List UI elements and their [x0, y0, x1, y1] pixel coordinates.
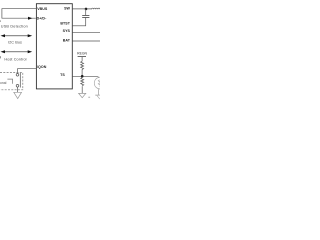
svg-text:D+/D-: D+/D-	[37, 17, 47, 21]
svg-text:VBUS: VBUS	[37, 7, 48, 11]
pushbutton S1 actuator bar	[17, 73, 24, 88]
wire TS line into thermistor	[98, 76, 99, 77]
wire TS	[72, 73, 98, 80]
svg-text:/QON: /QON	[37, 65, 47, 69]
wire VBUS	[2, 5, 37, 12]
svg-text:BTST: BTST	[60, 22, 70, 26]
pushbutton S1 contact top	[16, 74, 19, 77]
pushbutton S1 contact bottom	[16, 85, 19, 88]
wire cap to BTST	[82, 18, 89, 26]
svg-text:I2C Bus: I2C Bus	[8, 41, 22, 45]
REGN rail bar	[78, 53, 86, 61]
arrowhead into D+/D- pin	[28, 17, 33, 20]
thermistor RT1 element	[98, 80, 100, 87]
svg-text:USB Detection: USB Detection	[1, 25, 28, 29]
wire D+/D-	[2, 15, 36, 22]
wire BAT	[72, 38, 100, 45]
wire /QON from pushbutton	[18, 69, 37, 74]
capacitor C1 bootstrap	[82, 12, 89, 20]
wire R2 to ground	[79, 86, 86, 93]
wire button to ground	[14, 87, 21, 92]
svg-text:Host Control: Host Control	[4, 58, 26, 62]
svg-text:TS: TS	[60, 73, 65, 77]
svg-text:REGN: REGN	[77, 52, 87, 56]
cut-off mark left edge	[0, 20, 2, 21]
node SW junction	[85, 8, 88, 11]
svg-text:ional: ional	[0, 81, 7, 85]
ground under pushbutton	[14, 92, 22, 98]
wire R1 to TS node	[79, 69, 86, 76]
ground under R2	[79, 93, 86, 97]
wire BTST	[72, 22, 86, 29]
resistor R2 TS pull-down	[81, 78, 84, 86]
wire thermistor to ground	[95, 89, 102, 95]
wire SW to bootstrap cap	[82, 9, 89, 15]
resistor R1 TS pull-up	[81, 61, 84, 69]
wire SYS	[72, 29, 100, 36]
cut-off mark bottom edge	[88, 96, 90, 99]
node bar USB connector	[0, 8, 5, 18]
cut-off mark left edge 2	[0, 56, 2, 58]
wire USB detection double arrow	[4, 32, 29, 39]
svg-text:SW: SW	[64, 7, 70, 11]
node TS junction	[81, 75, 84, 78]
svg-text:SYS: SYS	[63, 29, 71, 33]
inductor L1	[92, 8, 100, 9]
wire REGN to R1	[79, 57, 86, 62]
thermistor RT1 circle	[94, 77, 106, 89]
svg-text:BAT: BAT	[63, 39, 71, 43]
optional dashed box	[0, 73, 23, 90]
ground slope thermistor cut	[97, 95, 100, 99]
wire stub cut element	[7, 79, 12, 84]
ground bar thermistor	[95, 92, 100, 99]
IC U1 charger block	[36, 4, 72, 89]
wire I2C bus double arrow	[4, 48, 29, 55]
wire SW	[72, 5, 92, 12]
